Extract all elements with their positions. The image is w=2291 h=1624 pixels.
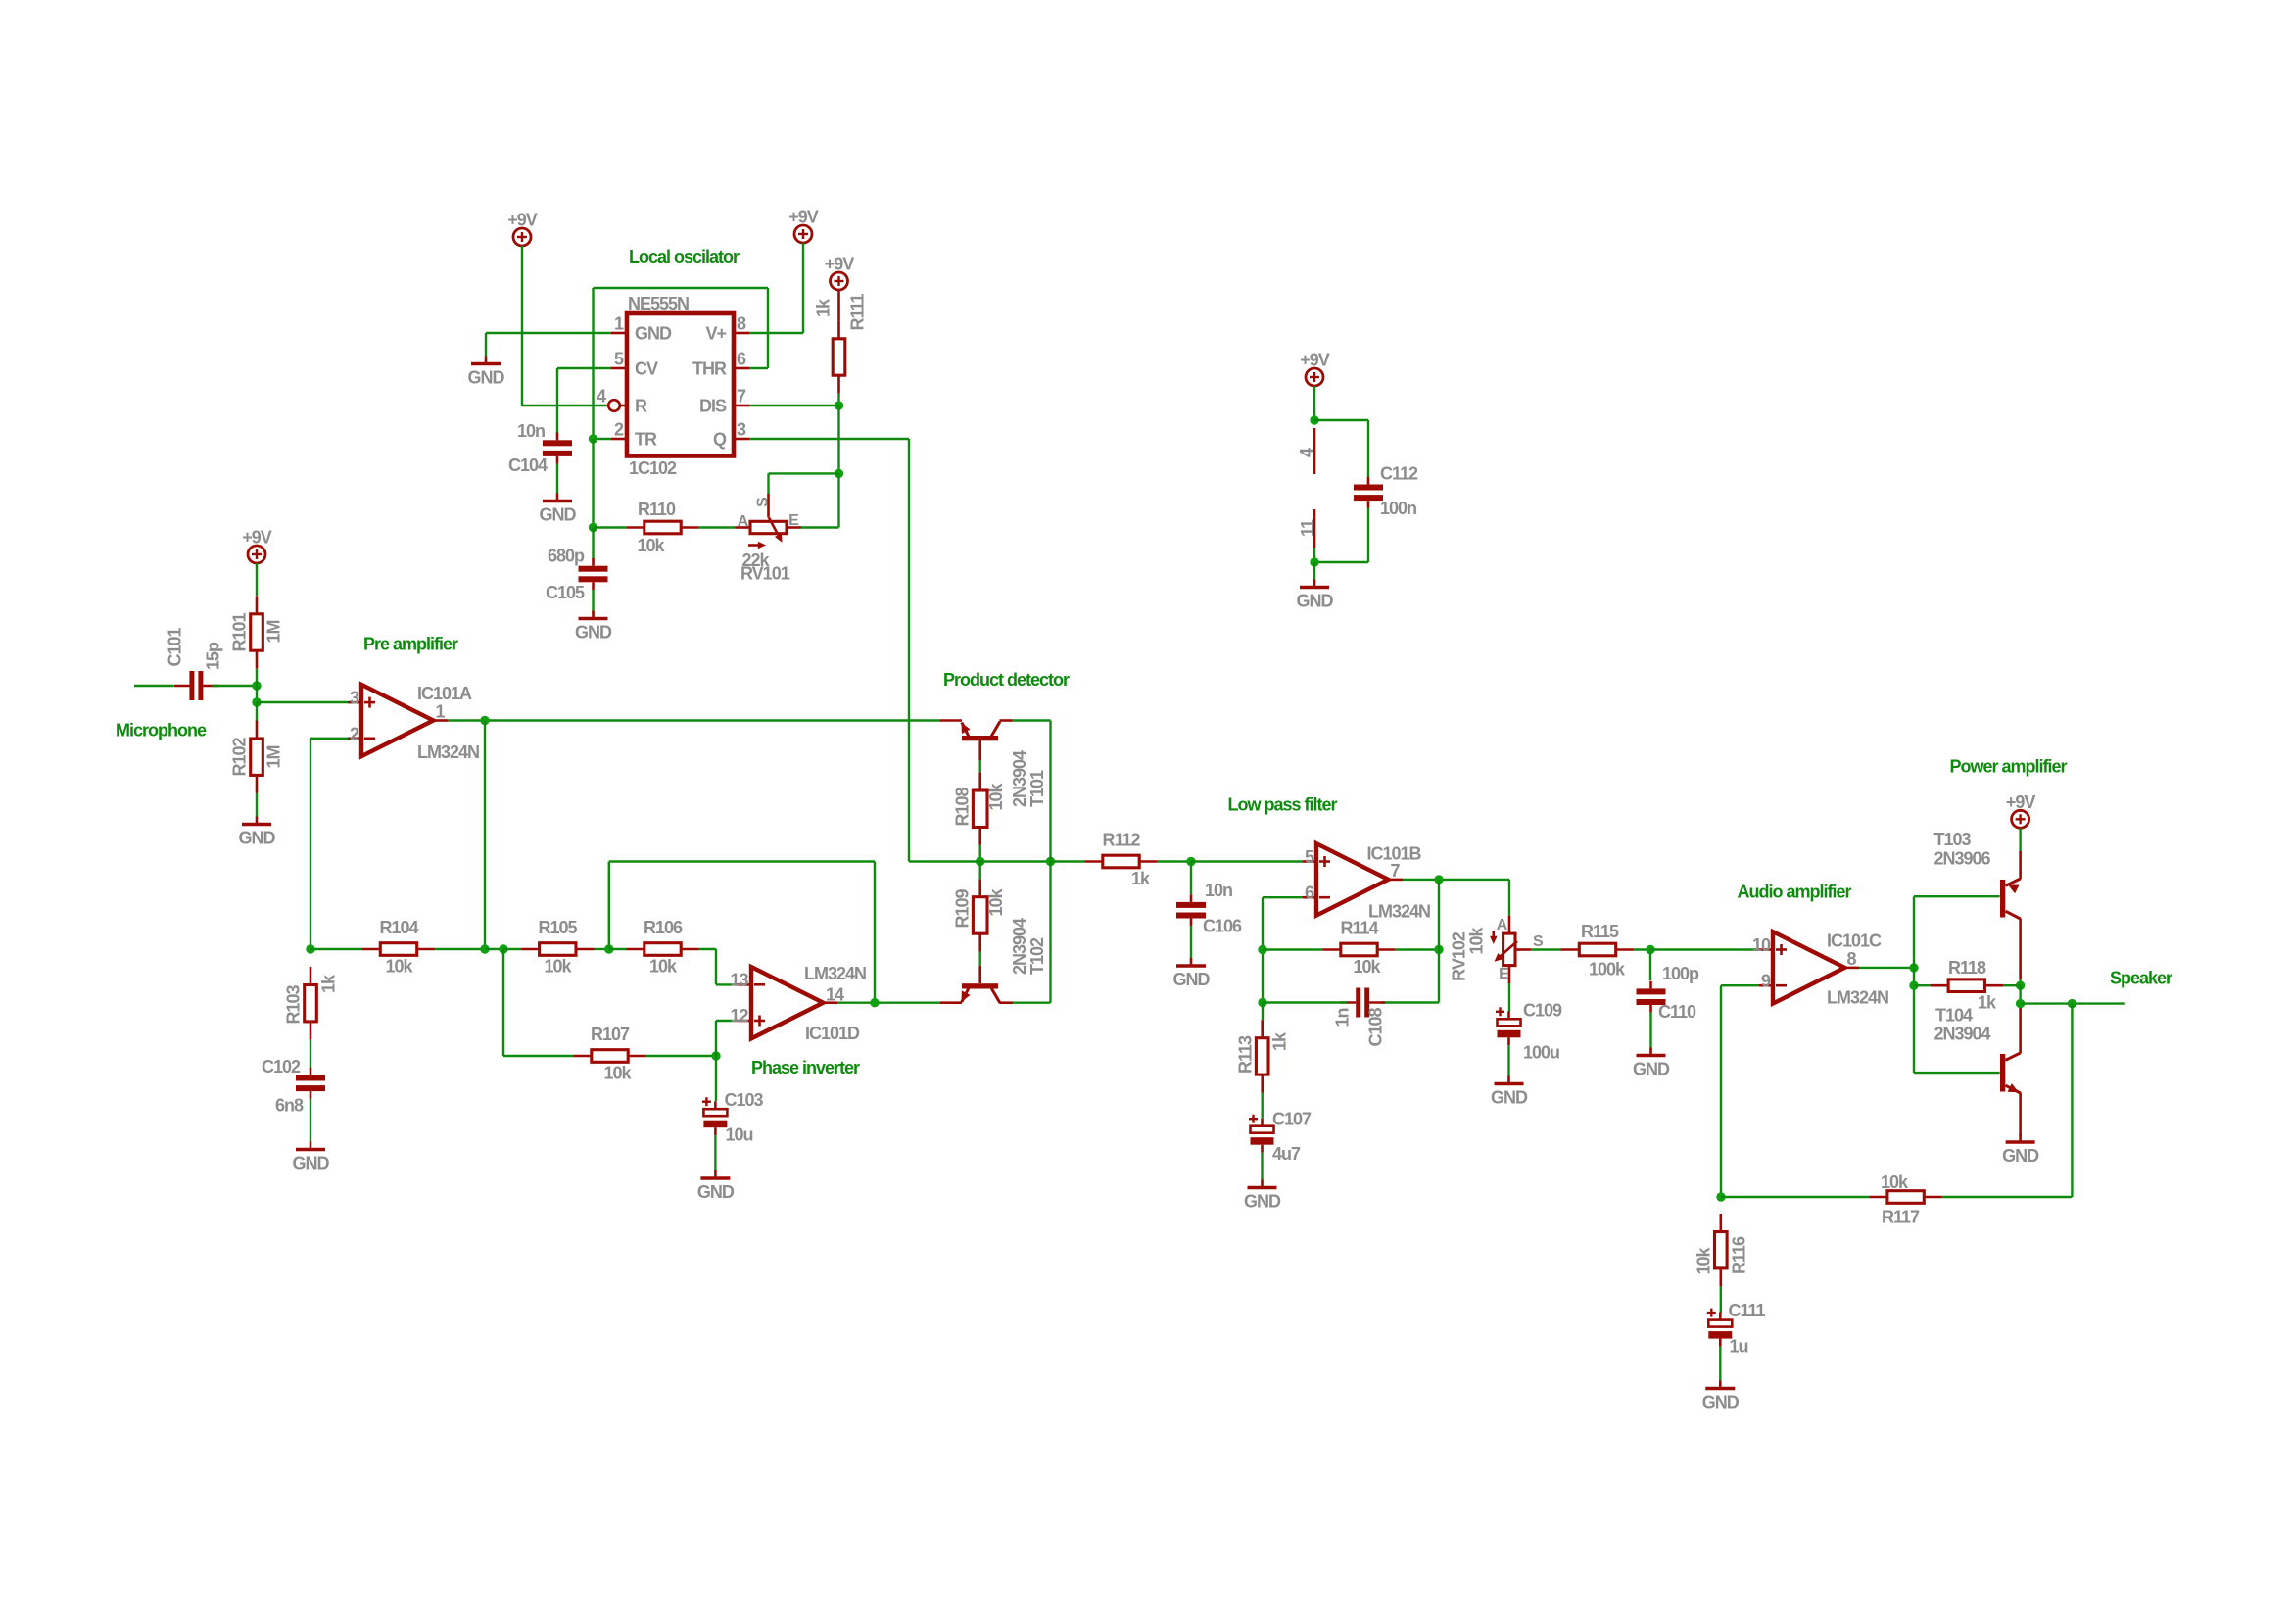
svg-text:10: 10: [1752, 935, 1771, 955]
wire node to R112: [1051, 860, 1085, 862]
svg-text:R105: R105: [538, 918, 577, 937]
wire R105-R106 node up: [608, 862, 610, 950]
wire pin6 vertical: [1262, 897, 1264, 1002]
svg-text:GND: GND: [575, 623, 612, 643]
wire C110 to ground: [1649, 1013, 1651, 1048]
capacitor C101: [173, 671, 218, 700]
wire R106 to corner: [699, 948, 716, 950]
wire C106 to ground: [1190, 926, 1192, 959]
svg-text:Phase inverter: Phase inverter: [751, 1058, 860, 1077]
pin 5 of IC101B: [1303, 860, 1316, 863]
svg-text:NE555N: NE555N: [628, 294, 689, 313]
svg-text:10n: 10n: [1205, 881, 1232, 900]
wire pin11 to node: [1313, 548, 1315, 562]
wire +9V to T103 emitter: [2019, 828, 2021, 851]
svg-text:S: S: [1533, 933, 1544, 950]
wire TR-THR loop vertical right: [767, 288, 769, 368]
svg-text:1n: 1n: [1333, 1008, 1353, 1027]
wire C112 branch bottom: [1314, 561, 1368, 563]
wire R116 to C111: [1720, 1286, 1722, 1313]
svg-text:6: 6: [737, 350, 746, 369]
svg-text:T103: T103: [1934, 830, 1972, 849]
svg-text:3: 3: [737, 420, 746, 440]
node C101/bias junction: [252, 681, 261, 690]
ground (555 pin1): [471, 357, 501, 364]
transistor T101 (2N3904): [940, 721, 1013, 761]
svg-text:100u: 100u: [1523, 1043, 1559, 1063]
node feedback junction: [2068, 999, 2076, 1008]
wire C109 to ground: [1507, 1045, 1509, 1076]
resistor R106: [626, 943, 698, 956]
pin 9 of IC101C: [1759, 984, 1773, 987]
wire R115 to node: [1634, 948, 1650, 950]
capacitor C110: [1637, 981, 1666, 1013]
capacitor C104: [543, 433, 572, 464]
svg-text:Power amplifier: Power amplifier: [1950, 757, 2068, 777]
svg-text:DIS: DIS: [699, 397, 727, 416]
svg-text:A: A: [1497, 917, 1508, 933]
svg-text:R101: R101: [230, 612, 250, 651]
svg-text:R111: R111: [848, 293, 868, 330]
resistor R101: [251, 596, 263, 668]
svg-text:4: 4: [597, 387, 606, 406]
svg-text:LM324N: LM324N: [417, 742, 479, 762]
resistor R118: [1931, 979, 2003, 992]
wire down to C105: [592, 528, 594, 560]
svg-text:R116: R116: [1730, 1236, 1749, 1274]
wire R111 top (to +9V): [837, 290, 840, 320]
wire TR down to R110 node: [592, 439, 594, 528]
svg-text:THR: THR: [692, 359, 727, 379]
potentiometer RV101: [736, 494, 802, 549]
node pin11/C112 junction: [1310, 557, 1318, 566]
svg-text:GND: GND: [1297, 592, 1334, 611]
resistor R114: [1322, 943, 1395, 956]
wire pin9 vertical: [1720, 985, 1722, 1197]
svg-text:1: 1: [436, 702, 446, 722]
svg-text:T101: T101: [1027, 770, 1047, 807]
svg-text:10k: 10k: [986, 888, 1006, 917]
svg-text:Audio amplifier: Audio amplifier: [1738, 883, 1852, 902]
capacitor C105: [579, 558, 608, 590]
capacitor C102: [296, 1068, 325, 1099]
ground (C111): [1705, 1381, 1735, 1389]
power +9V supply (C112): [1306, 368, 1323, 386]
svg-text:10k: 10k: [1694, 1247, 1714, 1275]
node pin2/R104/R103 junction: [306, 944, 314, 953]
node IC101A output junction: [480, 716, 489, 725]
wire THR connect: [749, 367, 768, 369]
wire R107 branch down: [502, 949, 504, 1056]
wire T102 collector link: [1012, 1002, 1051, 1004]
ground (R102): [242, 817, 271, 825]
svg-text:4: 4: [1297, 448, 1316, 457]
wire R101 to node: [256, 669, 258, 686]
svg-text:GND: GND: [239, 829, 276, 848]
svg-text:1k: 1k: [1131, 869, 1151, 888]
wire DIS net: [749, 405, 839, 406]
wire node to node: [485, 948, 503, 950]
wire +9V to pin4 row vertical: [521, 246, 523, 406]
op-amp IC101C: [1773, 931, 1844, 1003]
ground (C107): [1248, 1180, 1277, 1188]
svg-text:4u7: 4u7: [1272, 1144, 1301, 1164]
resistor R111: [833, 320, 845, 393]
wire node to R106: [609, 948, 627, 950]
node IC101B output junction: [1434, 875, 1443, 884]
svg-text:TR: TR: [635, 430, 657, 450]
ground (C104): [543, 494, 572, 502]
node speaker junction: [2016, 999, 2025, 1008]
wire +9V to pin4 node: [1313, 386, 1315, 420]
node R114 right junction: [1434, 945, 1443, 954]
wire node to pin5: [1191, 860, 1303, 862]
svg-text:Local oscilator: Local oscilator: [629, 247, 740, 266]
pin 5 CV of 555: [611, 367, 627, 370]
svg-text:E: E: [1499, 966, 1509, 982]
wire microphone input: [134, 685, 173, 687]
resistor R105: [521, 943, 594, 956]
wire C112 vertical bottom: [1367, 508, 1369, 562]
svg-text:GND: GND: [635, 324, 672, 344]
op-amp IC101A: [361, 685, 433, 756]
wire IC101D output: [837, 1002, 941, 1004]
power +9V supply (555 V+): [794, 225, 812, 243]
svg-text:10k: 10k: [649, 957, 678, 977]
svg-text:+9V: +9V: [2006, 792, 2036, 812]
svg-text:E: E: [788, 512, 799, 529]
svg-text:R107: R107: [591, 1025, 630, 1044]
wire carrier row: [909, 860, 980, 862]
pin 2 of IC101A: [348, 737, 361, 740]
node R118 left junction: [1909, 981, 1918, 990]
svg-text:2N3904: 2N3904: [1010, 750, 1029, 807]
svg-text:C101: C101: [166, 627, 185, 666]
pin 13 of IC101D: [737, 983, 751, 986]
ground (C102): [296, 1142, 325, 1150]
svg-text:C105: C105: [546, 583, 585, 602]
svg-text:680p: 680p: [548, 547, 585, 566]
svg-text:1k: 1k: [1270, 1031, 1290, 1051]
wire R110 to RV101 A: [699, 526, 736, 528]
wire node to node2: [256, 686, 258, 702]
transistor T102 (2N3904): [940, 966, 1013, 1003]
wire node down to C103: [715, 1056, 717, 1101]
pin 8 V+ of 555: [734, 332, 749, 335]
wire R109 to T102 base: [979, 952, 981, 966]
wire pin6 net: [1263, 896, 1303, 898]
wire node to R102: [256, 702, 258, 721]
wire output down to R104 row: [484, 721, 486, 950]
node R115/C110 junction: [1646, 945, 1654, 954]
svg-text:7: 7: [737, 387, 746, 406]
svg-text:T104: T104: [1935, 1006, 1973, 1026]
svg-text:GND: GND: [2002, 1146, 2039, 1166]
resistor R102: [251, 721, 263, 793]
svg-text:9: 9: [1761, 972, 1771, 991]
svg-text:R103: R103: [284, 984, 304, 1024]
wire speaker row: [2021, 1002, 2125, 1004]
pin 1 GND of 555: [611, 332, 627, 335]
power +9V supply (left of 555): [513, 228, 531, 246]
resistor R113: [1256, 1020, 1268, 1092]
wire RV102 S to R115: [1531, 948, 1561, 950]
svg-text:LM324N: LM324N: [1827, 988, 1888, 1008]
ground (C103): [700, 1170, 730, 1178]
wire R118 right link: [2003, 984, 2021, 986]
svg-text:+9V: +9V: [507, 211, 538, 230]
wire node to R114: [1263, 948, 1322, 950]
wire DIS down to RV101 node: [837, 406, 839, 473]
resistor R110: [626, 521, 698, 534]
resistor R115: [1561, 943, 1634, 956]
wire bias node to pin3: [257, 701, 348, 703]
svg-text:RV102: RV102: [1450, 931, 1469, 981]
pin 3 Q of 555: [734, 438, 749, 441]
pin stub R109 top: [978, 879, 981, 896]
wire C110 drop: [1649, 950, 1651, 981]
svg-text:1k: 1k: [814, 298, 834, 317]
resistor R112: [1084, 855, 1157, 868]
svg-text:S: S: [755, 497, 772, 507]
wire collectors vertical top: [1049, 721, 1051, 862]
svg-text:IC101D: IC101D: [805, 1024, 860, 1043]
svg-text:+9V: +9V: [242, 528, 272, 548]
svg-text:LM324N: LM324N: [804, 964, 866, 983]
wire T103 base net: [1914, 895, 2000, 897]
svg-text:10k: 10k: [544, 957, 572, 977]
wire T101 base to R108: [979, 760, 981, 773]
node collectors junction: [1046, 857, 1055, 866]
wire R103 to C102: [310, 1039, 311, 1070]
wire R107 to node: [646, 1055, 716, 1057]
node R118 right junction: [2016, 981, 2025, 990]
wire node to pin10: [1650, 948, 1759, 950]
svg-text:100p: 100p: [1662, 964, 1699, 983]
svg-text:R113: R113: [1236, 1035, 1256, 1074]
pin 8 output of IC101C: [1844, 967, 1859, 970]
wire R102 to ground: [256, 793, 258, 817]
transistor T104 (2N3904): [2000, 1008, 2021, 1136]
wire T103 collector to node: [2019, 979, 2021, 985]
svg-text:C109: C109: [1523, 1001, 1562, 1021]
node DIS junction: [835, 401, 843, 409]
svg-text:GND: GND: [1244, 1192, 1281, 1212]
wire output down: [1438, 880, 1440, 1003]
wire C106 drop: [1190, 862, 1192, 895]
wire C112 vertical top: [1367, 420, 1369, 477]
wire node to R105: [503, 948, 521, 950]
wire R111 bottom to DIS node: [837, 394, 839, 406]
capacitor C106: [1176, 894, 1206, 926]
wire feedback vertical: [2071, 1004, 2073, 1197]
wire corner down to pin13: [715, 949, 717, 984]
svg-text:R118: R118: [1948, 958, 1986, 978]
svg-text:10k: 10k: [1467, 927, 1487, 955]
svg-text:100k: 100k: [1589, 960, 1626, 979]
pin stub R108 top: [978, 773, 981, 790]
wire CV net vertical to C104: [556, 368, 558, 434]
wire to pin12: [716, 1020, 737, 1022]
svg-text:1k: 1k: [1978, 993, 1997, 1013]
pin 14 output of IC101D: [823, 1001, 837, 1004]
wire R118 left link: [1914, 984, 1931, 986]
capacitor C109 (electrolytic): [1496, 1007, 1521, 1045]
wire IC101C out: [1859, 967, 1914, 969]
svg-text:10k: 10k: [603, 1064, 632, 1083]
svg-text:+9V: +9V: [788, 208, 819, 227]
wire R113 to C107: [1261, 1093, 1263, 1119]
wire collectors vertical bottom: [1049, 862, 1051, 1003]
svg-text:R110: R110: [638, 500, 676, 519]
resistor R107: [573, 1050, 645, 1063]
capacitor C108: [1340, 988, 1385, 1018]
wire row to collector node: [980, 860, 1051, 862]
svg-text:C102: C102: [262, 1057, 301, 1076]
wire Q net horizontal: [749, 438, 909, 440]
pin 6 THR of 555: [734, 367, 749, 370]
power +9V supply (R111): [831, 272, 848, 290]
wire node to R109: [979, 862, 981, 880]
node R105/R106 junction: [604, 944, 613, 953]
wire RV102 E to C109: [1508, 983, 1510, 1012]
svg-text:R106: R106: [644, 918, 683, 937]
pin 3 of IC101A: [348, 701, 361, 704]
capacitor C103 (electrolytic): [702, 1097, 728, 1135]
svg-text:12: 12: [730, 1006, 748, 1026]
svg-text:R117: R117: [1882, 1208, 1920, 1227]
wire C107 to ground: [1261, 1153, 1263, 1180]
node R114 left junction: [1258, 945, 1266, 954]
svg-text:V+: V+: [705, 324, 726, 344]
svg-text:GND: GND: [1633, 1060, 1670, 1079]
node C108/R113 junction: [1258, 998, 1266, 1007]
svg-text:10k: 10k: [1353, 957, 1381, 977]
wire R105 to node: [595, 948, 609, 950]
pin 1 output of IC101A: [433, 719, 448, 722]
wire node to speaker node: [2019, 985, 2021, 1008]
svg-text:GND: GND: [1173, 970, 1211, 989]
node pin3 junction: [252, 697, 261, 706]
resistor R116: [1715, 1214, 1728, 1286]
node output junction: [1909, 963, 1918, 972]
node R112/C106 junction: [1186, 857, 1195, 866]
svg-text:R: R: [635, 397, 647, 416]
svg-text:15p: 15p: [204, 642, 223, 670]
pin 4 R of 555 with bubble: [621, 405, 628, 407]
wire base bus vertical: [1913, 896, 1915, 1073]
power +9V supply (power amp): [2012, 810, 2029, 828]
svg-text:3: 3: [350, 689, 359, 708]
ground (T104 emitter): [2006, 1134, 2035, 1142]
op-amp IC101B: [1316, 843, 1388, 915]
node pin4/C112 junction: [1310, 415, 1318, 424]
wire to pin13: [716, 983, 737, 985]
wire V+ vertical: [802, 243, 804, 333]
svg-text:10k: 10k: [385, 957, 413, 977]
svg-text:10u: 10u: [726, 1125, 753, 1145]
svg-text:100n: 100n: [1380, 499, 1416, 518]
pin 7 output of IC101B: [1388, 879, 1403, 882]
node R107 branch junction: [499, 944, 507, 953]
op-amp IC101D: [751, 967, 823, 1038]
svg-text:1: 1: [614, 314, 624, 334]
svg-text:A: A: [738, 513, 749, 530]
svg-text:C107: C107: [1272, 1110, 1312, 1129]
wire node to R113: [1262, 1003, 1264, 1021]
wire feedback to R117: [1942, 1196, 2073, 1198]
svg-text:CV: CV: [635, 359, 658, 379]
wire TR-THR loop vertical left: [592, 288, 594, 439]
pin 7 DIS of 555: [734, 405, 749, 407]
wire T101 collector link: [1012, 719, 1051, 721]
wire node to ground: [1313, 562, 1315, 582]
svg-text:Q: Q: [713, 430, 727, 450]
wire pin9 net: [1721, 984, 1759, 986]
resistor R109: [973, 897, 987, 952]
wire IC101A output row: [448, 719, 941, 721]
svg-text:2N3904: 2N3904: [1934, 1025, 1991, 1044]
svg-text:R104: R104: [379, 918, 418, 937]
wire C104 to ground: [556, 464, 558, 494]
wire across to IC101D output: [609, 860, 875, 862]
ground (C112): [1300, 580, 1329, 588]
wire pin2 net horizontal: [310, 738, 348, 740]
wire TR-THR loop top: [594, 287, 769, 289]
pin 12 of IC101D: [737, 1020, 751, 1023]
svg-text:Low pass filter: Low pass filter: [1228, 795, 1338, 815]
svg-text:2: 2: [350, 724, 359, 743]
node R110/C105 junction: [589, 523, 597, 532]
wire down to IC101D output node: [874, 862, 876, 1003]
wire RV101 E horizontal: [801, 526, 839, 528]
svg-text:6: 6: [1305, 884, 1314, 903]
wire node up to pin12: [715, 1021, 717, 1056]
svg-text:Speaker: Speaker: [2110, 969, 2172, 988]
svg-text:+9V: +9V: [825, 255, 855, 274]
pin 6 of IC101B: [1303, 896, 1316, 899]
wire out corner down to RV102: [1508, 880, 1510, 916]
svg-text:IC101C: IC101C: [1827, 931, 1882, 951]
wire TR stub connect: [594, 438, 612, 440]
svg-text:2N3904: 2N3904: [1010, 918, 1029, 975]
wire Q net vertical to product detector: [908, 439, 910, 862]
wire CV net horizontal: [557, 367, 611, 369]
node R116/R117 junction: [1716, 1192, 1725, 1201]
IC 1C102 NE555N body: [627, 313, 734, 456]
capacitor C112: [1354, 477, 1383, 508]
capacitor C111 (electrolytic): [1707, 1309, 1733, 1347]
svg-text:GND: GND: [697, 1182, 735, 1202]
transistor T103 (2N3906): [2000, 851, 2021, 979]
svg-text:2N3906: 2N3906: [1934, 849, 1991, 869]
svg-text:GND: GND: [540, 505, 577, 525]
svg-text:C108: C108: [1366, 1007, 1386, 1046]
svg-text:GND: GND: [468, 368, 505, 388]
wire pin1 GND net vertical: [485, 333, 487, 357]
svg-text:GND: GND: [1491, 1088, 1528, 1108]
svg-text:5: 5: [1305, 847, 1314, 867]
svg-text:C104: C104: [508, 455, 548, 475]
wire pin1 GND net horizontal: [486, 332, 611, 334]
svg-text:Product detector: Product detector: [943, 670, 1070, 690]
wire C105 to ground: [592, 590, 594, 615]
svg-text:IC101A: IC101A: [417, 684, 472, 703]
svg-text:8: 8: [737, 314, 746, 334]
wire T104 base net: [1914, 1072, 2000, 1074]
ground (C105): [579, 611, 608, 619]
svg-text:11: 11: [1298, 519, 1317, 537]
